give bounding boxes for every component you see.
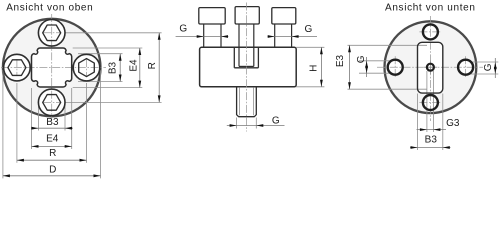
svg-text:G3: G3 — [446, 118, 460, 129]
svg-text:E3: E3 — [335, 54, 346, 67]
svg-text:D: D — [49, 165, 56, 176]
svg-text:Ansicht von unten: Ansicht von unten — [385, 3, 476, 14]
svg-text:G: G — [179, 24, 187, 35]
svg-text:B3: B3 — [46, 117, 59, 128]
svg-text:R: R — [49, 148, 56, 159]
svg-text:G: G — [272, 115, 280, 126]
svg-text:B3: B3 — [425, 135, 438, 146]
svg-text:Ansicht von oben: Ansicht von oben — [6, 3, 93, 14]
svg-text:H: H — [308, 65, 319, 72]
svg-text:G: G — [483, 63, 494, 71]
svg-text:G: G — [305, 24, 313, 35]
svg-text:R: R — [147, 62, 158, 69]
svg-text:E4: E4 — [46, 134, 59, 145]
svg-text:E4: E4 — [129, 59, 140, 72]
svg-text:G: G — [356, 55, 367, 63]
svg-text:B3: B3 — [107, 61, 118, 74]
